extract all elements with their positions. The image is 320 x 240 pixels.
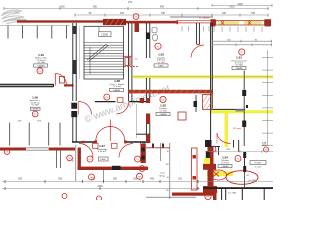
svg-text:1.04: 1.04	[222, 156, 228, 160]
svg-text:CAMBI: CAMBI	[113, 89, 120, 92]
svg-text:260: 260	[113, 178, 118, 181]
svg-text:332: 332	[91, 178, 96, 181]
svg-text:455: 455	[150, 178, 155, 181]
svg-text:204: 204	[120, 12, 125, 15]
svg-text:CAMBI: CAMBI	[236, 67, 243, 70]
svg-text:5.1 m2: 5.1 m2	[255, 166, 262, 168]
svg-text:SL: MB: SL: MB	[159, 110, 167, 112]
svg-text:S.L. MB: S.L. MB	[228, 193, 236, 195]
svg-text:786: 786	[58, 178, 63, 181]
svg-text:960: 960	[93, 5, 98, 8]
svg-text:POMO: POMO	[255, 163, 262, 165]
svg-text:CAMBI: CAMBI	[160, 113, 167, 116]
svg-text:70.4 m2: 70.4 m2	[113, 86, 122, 88]
svg-text:240: 240	[18, 178, 23, 181]
svg-text:DIMO: DIMO	[158, 66, 164, 68]
svg-text:325: 325	[222, 12, 227, 15]
svg-text:155: 155	[133, 178, 138, 181]
svg-text:1.08: 1.08	[114, 79, 120, 83]
svg-text:SP preg.: SP preg.	[233, 127, 242, 130]
svg-text:279: 279	[128, 1, 133, 4]
svg-text:4.90 m2: 4.90 m2	[98, 151, 107, 153]
svg-text:1.10: 1.10	[38, 53, 44, 57]
svg-text:60 kg: 60 kg	[159, 176, 165, 178]
svg-text:CAMBI: CAMBI	[32, 107, 39, 110]
svg-text:12.8 m2: 12.8 m2	[221, 162, 230, 164]
svg-text:C030: C030	[101, 33, 108, 37]
svg-text:1.07: 1.07	[99, 144, 105, 148]
svg-text:1.09: 1.09	[32, 95, 38, 99]
svg-text:1384: 1384	[97, 185, 103, 188]
svg-text:4125: 4125	[237, 3, 243, 6]
svg-text:2400: 2400	[59, 5, 65, 8]
svg-text:1.03: 1.03	[158, 53, 164, 57]
svg-text:4125: 4125	[229, 5, 235, 8]
svg-text:1 1/2: 1 1/2	[160, 173, 166, 175]
svg-text:SL: MB: SL: MB	[157, 62, 165, 64]
svg-text:CAMBI: CAMBI	[222, 165, 229, 168]
svg-text:SL-CAMBI: SL-CAMBI	[199, 16, 210, 19]
svg-text:330: 330	[161, 12, 166, 15]
svg-text:459: 459	[160, 5, 165, 8]
svg-text:CAMBI: CAMBI	[38, 65, 45, 68]
svg-text:DIMO: DIMO	[100, 159, 106, 161]
svg-text:SL: MB: SL: MB	[31, 105, 39, 107]
svg-text:1.01: 1.01	[236, 56, 242, 60]
svg-text:1.02: 1.02	[160, 104, 166, 108]
svg-text:310: 310	[178, 178, 183, 181]
svg-text:165: 165	[251, 12, 256, 15]
